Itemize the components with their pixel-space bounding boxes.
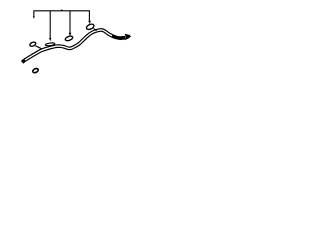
leader line 1 <box>49 11 51 38</box>
arrowhead leader 2 <box>69 33 72 37</box>
clamp E3 <box>86 23 95 31</box>
arrowhead right corner <box>88 21 91 24</box>
clamp E2 <box>65 35 74 41</box>
tube end arrow <box>125 34 131 41</box>
tick above bar <box>61 9 63 11</box>
arrowhead left hook <box>33 16 35 19</box>
leader line 2 <box>69 11 71 33</box>
small clip <box>32 68 39 74</box>
clamp E0 <box>29 41 36 47</box>
clamp E3 tail <box>94 29 97 31</box>
clamp E1 <box>45 42 55 46</box>
clamp E0 tail <box>36 46 42 49</box>
arrowhead leader 1 <box>49 38 51 41</box>
tube inner white <box>25 30 112 60</box>
tube outer <box>22 30 125 62</box>
leader bracket top bar <box>34 11 90 21</box>
